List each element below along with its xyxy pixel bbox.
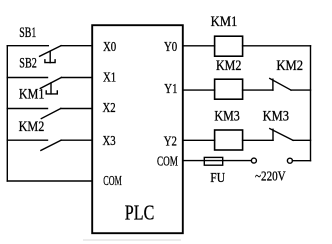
svg-text:KM1: KM1 bbox=[19, 86, 45, 102]
svg-text:X3: X3 bbox=[103, 134, 116, 149]
svg-text:Y2: Y2 bbox=[164, 135, 177, 150]
svg-text:KM2: KM2 bbox=[276, 58, 303, 74]
svg-text:KM1: KM1 bbox=[211, 14, 238, 30]
svg-text:X2: X2 bbox=[103, 101, 116, 116]
svg-text:COM: COM bbox=[157, 155, 178, 170]
svg-text:SB2: SB2 bbox=[19, 55, 37, 71]
svg-text:~220V: ~220V bbox=[255, 170, 286, 185]
svg-text:KM2: KM2 bbox=[19, 119, 45, 135]
svg-text:SB1: SB1 bbox=[19, 25, 36, 41]
svg-text:X0: X0 bbox=[103, 40, 116, 55]
svg-text:PLC: PLC bbox=[125, 201, 155, 225]
svg-text:FU: FU bbox=[210, 171, 225, 186]
svg-text:Y0: Y0 bbox=[164, 40, 177, 55]
svg-text:COM: COM bbox=[103, 174, 122, 189]
svg-text:KM2: KM2 bbox=[216, 58, 241, 74]
svg-text:Y1: Y1 bbox=[164, 82, 177, 97]
svg-text:X1: X1 bbox=[103, 71, 116, 86]
svg-text:KM3: KM3 bbox=[214, 109, 239, 125]
svg-text:KM3: KM3 bbox=[263, 109, 289, 125]
